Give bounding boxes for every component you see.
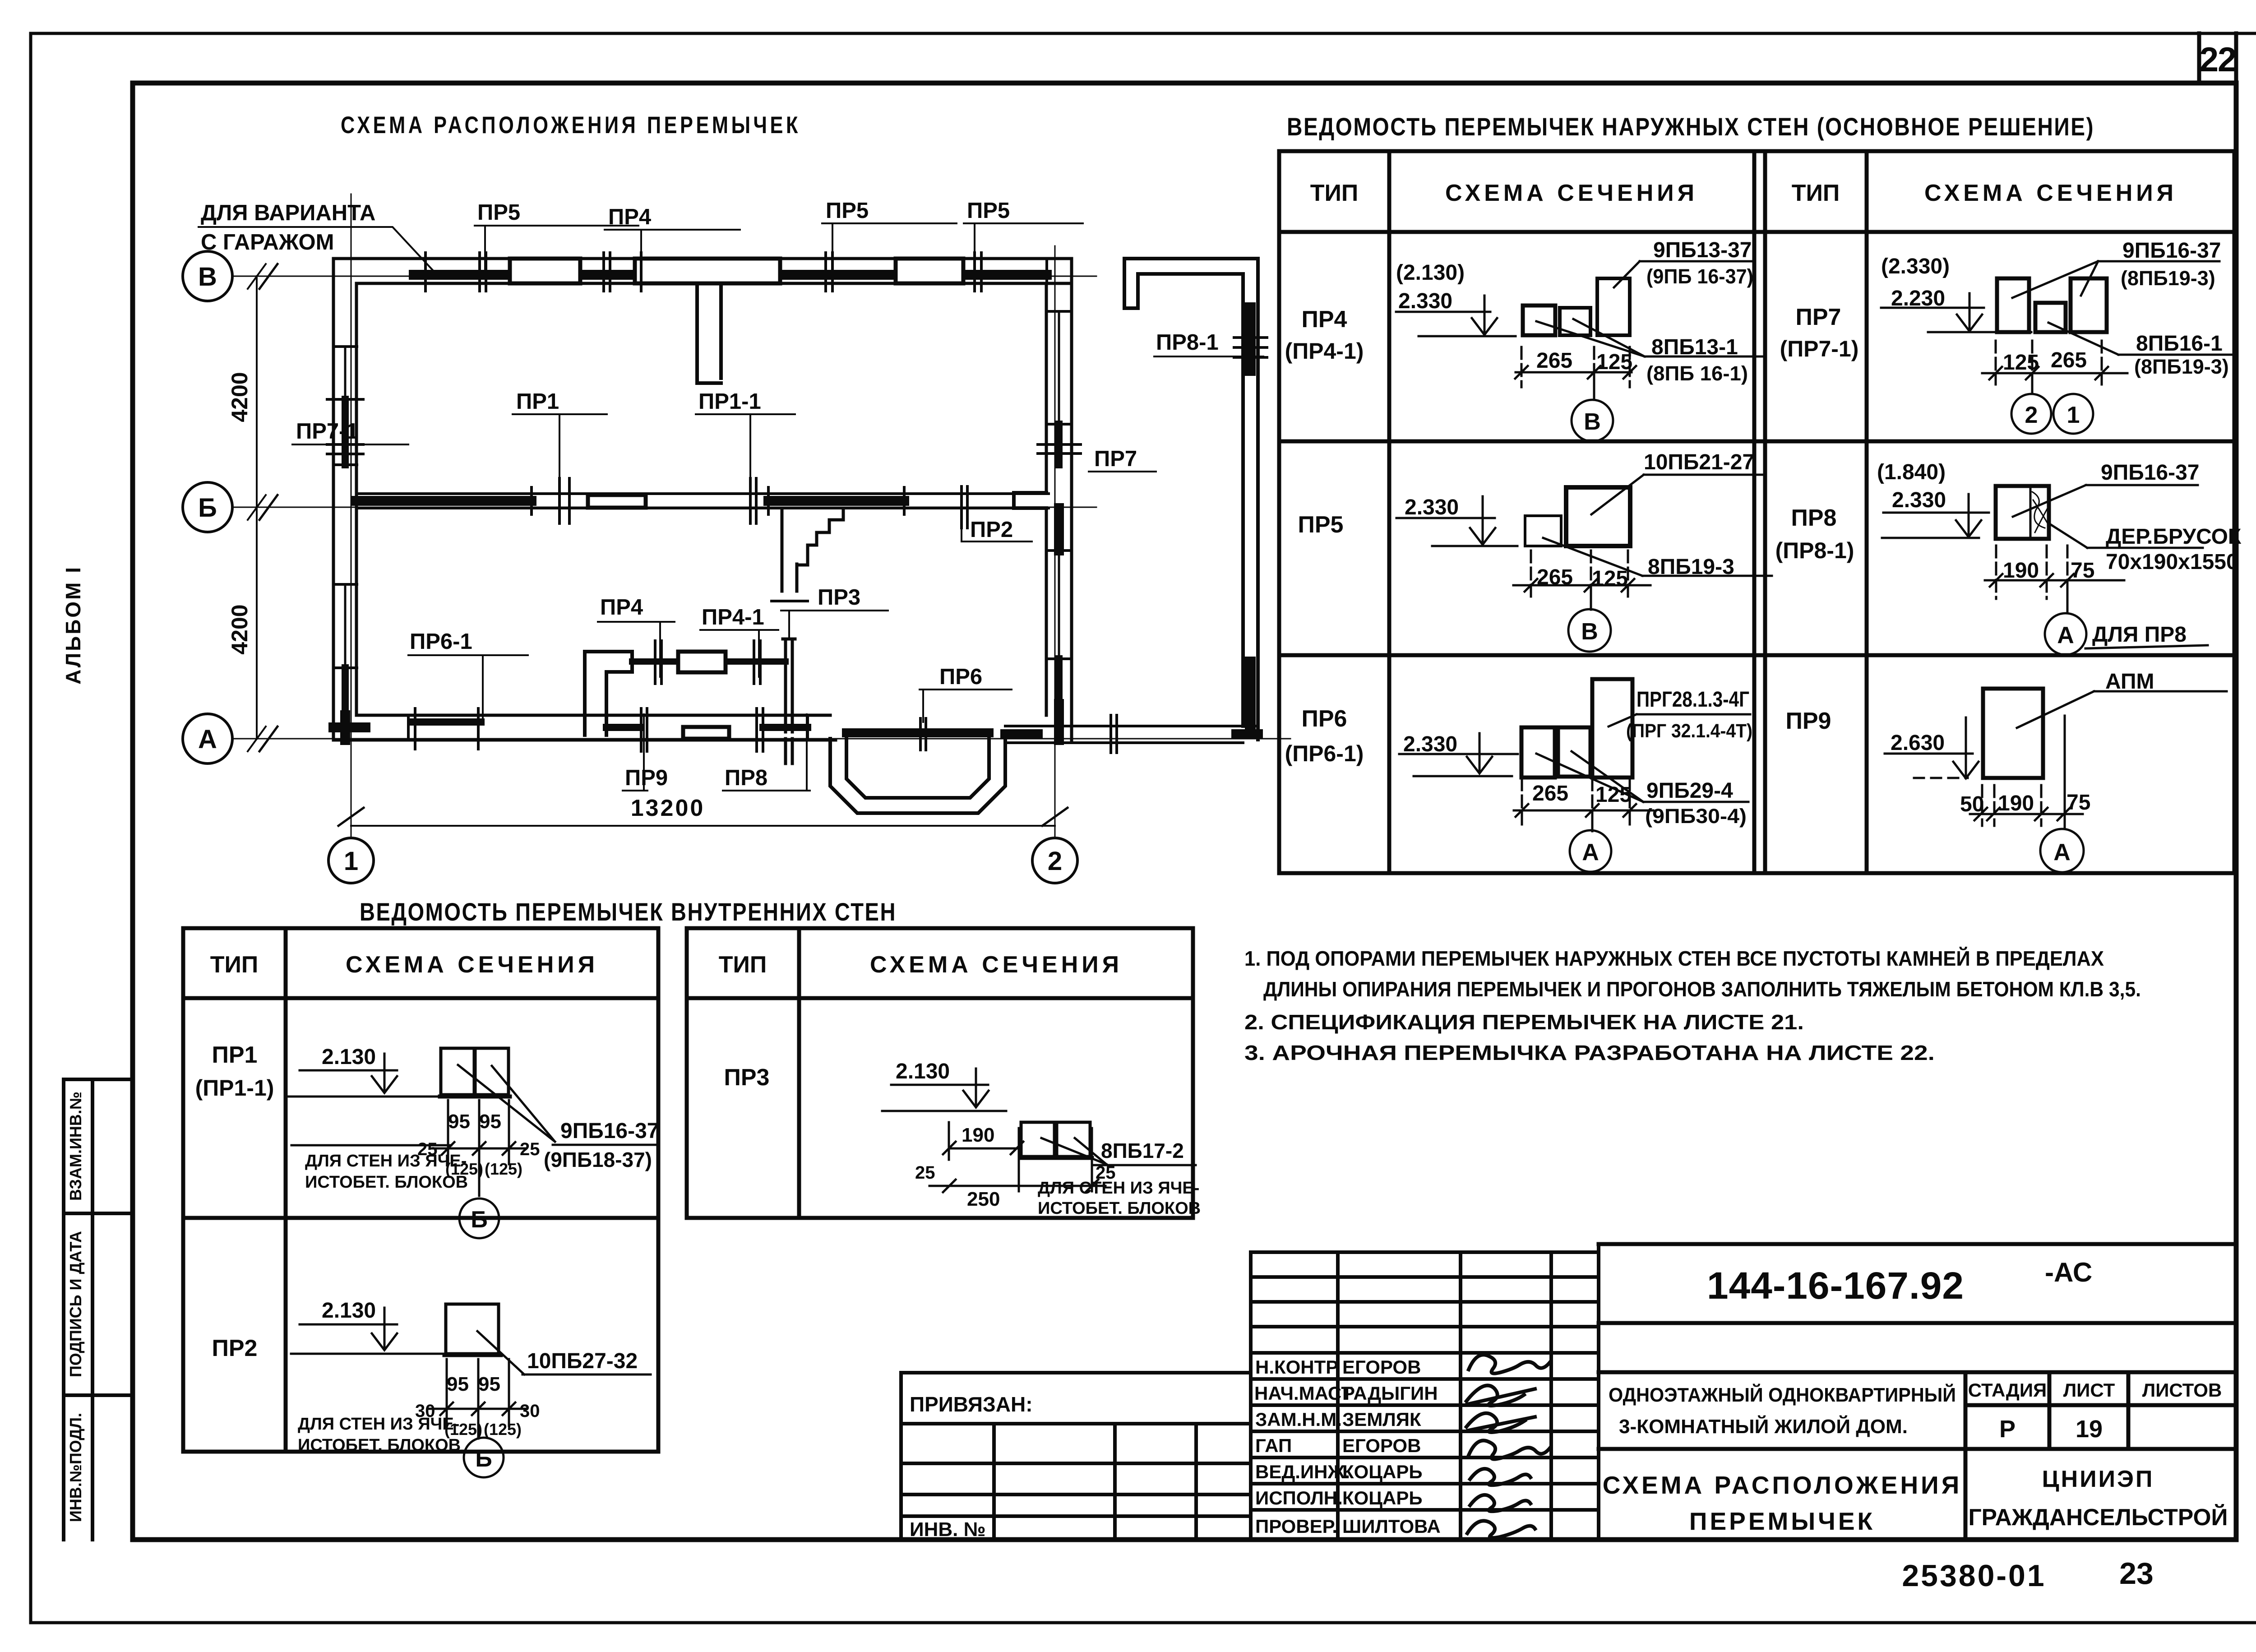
bay window: [830, 739, 1005, 813]
svg-text:(1.840): (1.840): [1877, 460, 1946, 484]
svg-text:ПР4-1: ПР4-1: [702, 605, 764, 629]
svg-text:2.330: 2.330: [1405, 495, 1459, 519]
svg-text:2.330: 2.330: [1398, 289, 1452, 313]
svg-text:ЕГОРОВ: ЕГОРОВ: [1342, 1435, 1421, 1456]
svg-text:ПР5: ПР5: [967, 199, 1010, 223]
cell ПР9 section scheme: [1885, 670, 2227, 872]
svg-text:А: А: [1582, 839, 1599, 865]
svg-text:2: 2: [1048, 847, 1062, 876]
svg-text:(8ПБ19-3): (8ПБ19-3): [2121, 267, 2215, 290]
svg-text:(8ПБ 16-1): (8ПБ 16-1): [1646, 362, 1748, 385]
svg-text:22: 22: [2200, 41, 2236, 79]
svg-text:190: 190: [1998, 791, 2034, 815]
svg-text:ОДНОЭТАЖНЫЙ ОДНОКВАРТИРНЫЙ: ОДНОЭТАЖНЫЙ ОДНОКВАРТИРНЫЙ: [1609, 1383, 1956, 1406]
svg-text:ПР7: ПР7: [1094, 447, 1137, 471]
svg-text:(ПР4-1): (ПР4-1): [1285, 338, 1364, 364]
svg-text:2.130: 2.130: [322, 1299, 376, 1323]
bottom tables title: [360, 898, 897, 926]
svg-text:В: В: [1581, 619, 1598, 645]
svg-text:2.130: 2.130: [896, 1060, 950, 1083]
svg-text:СХЕМА СЕЧЕНИЯ: СХЕМА СЕЧЕНИЯ: [1924, 180, 2177, 206]
svg-text:ПР7: ПР7: [1796, 304, 1841, 330]
svg-text:ДЕР.БРУСОК: ДЕР.БРУСОК: [2106, 525, 2242, 549]
svg-text:(ПР7-1): (ПР7-1): [1780, 336, 1859, 361]
svg-text:СТАДИЯ: СТАДИЯ: [1968, 1379, 2047, 1401]
svg-text:ПР8: ПР8: [725, 766, 767, 790]
svg-text:-АС: -АС: [2045, 1257, 2092, 1287]
svg-text:ПР3: ПР3: [724, 1064, 770, 1091]
svg-text:125: 125: [1596, 350, 1632, 374]
svg-text:1: 1: [2067, 402, 2080, 428]
right wall: [1046, 259, 1072, 740]
svg-text:(ПР8-1): (ПР8-1): [1775, 538, 1854, 563]
svg-text:ДЛИНЫ ОПИРАНИЯ ПЕРЕМЫЧЕК И: ДЛИНЫ ОПИРАНИЯ ПЕРЕМЫЧЕК И ПРОГОНОВ ЗАПО…: [1263, 977, 2141, 1001]
svg-text:3-КОМНАТНЫЙ ЖИЛОЙ ДОМ.: 3-КОМНАТНЫЙ ЖИЛОЙ ДОМ.: [1619, 1415, 1908, 1438]
svg-text:ГАП: ГАП: [1255, 1435, 1292, 1456]
svg-text:КОЦАРЬ: КОЦАРЬ: [1342, 1461, 1423, 1482]
dimension 13200: [351, 825, 1055, 827]
right table: Ведомость перемычек наружных стен: [1287, 112, 2094, 141]
cell ПР7 section scheme: [1881, 239, 2233, 434]
svg-text:ИНВ.№ПОДЛ.: ИНВ.№ПОДЛ.: [66, 1413, 85, 1522]
svg-text:25: 25: [915, 1163, 935, 1183]
sheet number box 22: [2199, 33, 2236, 83]
svg-text:8ПБ17-2: 8ПБ17-2: [1101, 1139, 1184, 1162]
svg-text:(9ПБ30-4): (9ПБ30-4): [1645, 805, 1747, 828]
svg-text:СХЕМА СЕЧЕНИЯ: СХЕМА СЕЧЕНИЯ: [870, 952, 1123, 978]
table internal walls - right (ПР3): [687, 928, 1193, 1218]
svg-text:АЛЬБОМ I: АЛЬБОМ I: [61, 565, 85, 685]
right wall jog to Б wall: [1014, 493, 1046, 508]
svg-text:КОЦАРЬ: КОЦАРЬ: [1342, 1487, 1423, 1509]
cell ПР4 section scheme: [1396, 238, 1762, 441]
dimension 4200 vertical: [248, 264, 266, 751]
cell ПР6 section scheme: [1399, 679, 1752, 872]
svg-text:13200: 13200: [631, 795, 705, 821]
svg-text:75: 75: [2071, 559, 2094, 583]
svg-text:2. СПЕЦИФИКАЦИЯ ПЕРЕМЫЧЕК НА: 2. СПЕЦИФИКАЦИЯ ПЕРЕМЫЧЕК НА ЛИСТЕ 21.: [1244, 1010, 1804, 1034]
svg-text:ИСТОБЕТ. БЛОКОВ: ИСТОБЕТ. БЛОКОВ: [305, 1173, 468, 1192]
svg-text:ИСТОБЕТ. БЛОКОВ: ИСТОБЕТ. БЛОКОВ: [1038, 1199, 1201, 1218]
title block: signature table: [1251, 1244, 1599, 1540]
bottom wall right of bay to garage piece: [1005, 726, 1258, 743]
svg-text:10ПБ21-27: 10ПБ21-27: [1644, 450, 1754, 474]
svg-text:НАЧ.МАСТ: НАЧ.МАСТ: [1254, 1383, 1353, 1404]
svg-text:ПР4: ПР4: [1302, 306, 1347, 333]
svg-text:ПР9: ПР9: [1786, 708, 1831, 734]
signatures squiggles: [1466, 1355, 1550, 1538]
axis slashes: [259, 264, 1068, 826]
svg-text:ПР9: ПР9: [625, 766, 668, 790]
svg-text:(2.130): (2.130): [1396, 261, 1465, 285]
svg-text:9ПБ29-4: 9ПБ29-4: [1646, 779, 1733, 803]
svg-text:ВЗАМ.ИНВ.№: ВЗАМ.ИНВ.№: [66, 1092, 85, 1201]
svg-text:8ПБ16-1: 8ПБ16-1: [2136, 332, 2223, 356]
svg-text:(125): (125): [485, 1160, 522, 1178]
svg-text:ПРОВЕР.: ПРОВЕР.: [1255, 1516, 1337, 1537]
svg-text:ЕГОРОВ: ЕГОРОВ: [1342, 1356, 1421, 1378]
svg-text:1. ПОД ОПОРАМИ ПЕРЕМЫЧЕК НАРУ: 1. ПОД ОПОРАМИ ПЕРЕМЫЧЕК НАРУЖНЫХ СТЕН В…: [1244, 947, 2104, 970]
svg-text:ПРИВЯЗАН:: ПРИВЯЗАН:: [910, 1393, 1033, 1416]
svg-text:25380-01: 25380-01: [1902, 1559, 2046, 1593]
svg-text:144-16-167.92: 144-16-167.92: [1707, 1264, 1964, 1307]
svg-text:РАДЫГИН: РАДЫГИН: [1342, 1383, 1438, 1404]
svg-text:250: 250: [967, 1188, 1000, 1210]
svg-text:265: 265: [1532, 782, 1568, 805]
svg-text:ИСТОБЕТ. БЛОКОВ: ИСТОБЕТ. БЛОКОВ: [298, 1436, 461, 1455]
top wall: [333, 259, 1072, 283]
svg-text:ТИП: ТИП: [719, 952, 767, 978]
svg-text:(ПРГ 32.1.4-4Т): (ПРГ 32.1.4-4Т): [1626, 720, 1752, 742]
svg-text:ПР1-1: ПР1-1: [698, 389, 761, 414]
svg-text:9ПБ16-37: 9ПБ16-37: [2122, 239, 2221, 263]
svg-text:СХЕМА РАСПОЛОЖЕНИЯ ПЕРЕМЫЧЕК: СХЕМА РАСПОЛОЖЕНИЯ ПЕРЕМЫЧЕК: [341, 112, 801, 139]
svg-text:(125): (125): [484, 1420, 522, 1439]
svg-text:95: 95: [478, 1373, 500, 1395]
svg-text:30: 30: [520, 1401, 540, 1421]
svg-text:Р: Р: [1999, 1416, 2016, 1443]
svg-text:ПР2: ПР2: [970, 518, 1013, 542]
svg-text:(9ПБ18-37): (9ПБ18-37): [544, 1148, 652, 1171]
cell ПР2: [291, 1299, 651, 1477]
svg-text:265: 265: [2051, 348, 2087, 372]
svg-text:СХЕМА СЕЧЕНИЯ: СХЕМА СЕЧЕНИЯ: [1445, 180, 1698, 206]
svg-text:ДЛЯ СТЕН ИЗ ЯЧЕ-: ДЛЯ СТЕН ИЗ ЯЧЕ-: [298, 1415, 459, 1434]
svg-text:ЛИСТ: ЛИСТ: [2063, 1379, 2115, 1401]
svg-text:ПР5: ПР5: [477, 200, 520, 225]
T-stub partition from top wall: [697, 283, 721, 383]
svg-text:ДЛЯ СТЕН ИЗ ЯЧЕ-: ДЛЯ СТЕН ИЗ ЯЧЕ-: [1038, 1179, 1199, 1198]
notes: [1244, 947, 2141, 1064]
svg-text:95: 95: [447, 1373, 469, 1395]
svg-text:С ГАРАЖОМ: С ГАРАЖОМ: [201, 230, 334, 255]
table internal walls - left: [183, 928, 658, 1452]
svg-text:ПР1: ПР1: [212, 1042, 258, 1068]
svg-text:ПР3: ПР3: [818, 585, 860, 610]
svg-text:3. АРОЧНАЯ ПЕРЕМЫЧКА РАЗРАБО: 3. АРОЧНАЯ ПЕРЕМЫЧКА РАЗРАБОТАНА НА ЛИСТ…: [1244, 1041, 1935, 1064]
svg-text:ПР5: ПР5: [1298, 512, 1344, 538]
svg-text:ПР6: ПР6: [1302, 706, 1347, 732]
svg-text:ПР5: ПР5: [826, 199, 869, 223]
svg-text:4200: 4200: [227, 604, 252, 654]
title block: right part: [1599, 1244, 2236, 1540]
svg-text:В: В: [198, 262, 217, 292]
svg-text:ВЕД.ИНЖ.: ВЕД.ИНЖ.: [1255, 1461, 1350, 1482]
svg-text:ПР8-1: ПР8-1: [1156, 330, 1219, 355]
horizontal partition ПР4 row: [585, 652, 632, 735]
svg-text:ЦНИИЭП: ЦНИИЭП: [2042, 1466, 2154, 1492]
svg-text:ПЕРЕМЫЧЕК: ПЕРЕМЫЧЕК: [1689, 1507, 1875, 1535]
svg-text:ДЛЯ ВАРИАНТА: ДЛЯ ВАРИАНТА: [201, 201, 375, 225]
svg-text:1: 1: [344, 847, 358, 876]
svg-text:ЗАМ.Н.М.: ЗАМ.Н.М.: [1255, 1409, 1342, 1430]
svg-text:75: 75: [2066, 791, 2090, 814]
svg-text:ПР7-1: ПР7-1: [296, 419, 359, 444]
svg-text:(8ПБ19-3): (8ПБ19-3): [2134, 355, 2229, 378]
svg-text:Б: Б: [471, 1207, 487, 1233]
plan title: [341, 112, 801, 139]
svg-text:ИНВ. №: ИНВ. №: [910, 1518, 986, 1541]
svg-text:2.330: 2.330: [1892, 488, 1946, 512]
svg-text:А: А: [2057, 622, 2074, 648]
svg-text:(2.330): (2.330): [1881, 255, 1950, 278]
svg-text:ВЕДОМОСТЬ ПЕРЕМЫЧЕК ВНУТРЕННИ: ВЕДОМОСТЬ ПЕРЕМЫЧЕК ВНУТРЕННИХ СТЕН: [360, 898, 897, 926]
svg-text:ТИП: ТИП: [1792, 180, 1840, 206]
bottom wall: [333, 715, 836, 740]
svg-text:2.330: 2.330: [1403, 732, 1457, 756]
svg-text:ГРАЖДАНСЕЛЬСТРОЙ: ГРАЖДАНСЕЛЬСТРОЙ: [1969, 1504, 2228, 1531]
svg-text:ПР6: ПР6: [939, 665, 982, 689]
svg-text:СХЕМА РАСПОЛОЖЕНИЯ: СХЕМА РАСПОЛОЖЕНИЯ: [1603, 1471, 1962, 1499]
svg-text:4200: 4200: [227, 372, 252, 422]
svg-text:10ПБ27-32: 10ПБ27-32: [527, 1349, 638, 1373]
axis circles: [183, 251, 1077, 883]
svg-text:190: 190: [2003, 559, 2039, 583]
svg-text:ПР8: ПР8: [1791, 505, 1837, 531]
svg-text:2.630: 2.630: [1891, 731, 1945, 755]
svg-text:265: 265: [1536, 349, 1572, 373]
svg-text:ПОДПИСЬ И ДАТА: ПОДПИСЬ И ДАТА: [66, 1231, 85, 1377]
svg-text:70х190х1550: 70х190х1550: [2106, 550, 2238, 574]
left margin album text: [61, 565, 85, 685]
svg-text:9ПБ16-37: 9ПБ16-37: [560, 1119, 659, 1143]
svg-text:А: А: [198, 725, 217, 754]
svg-text:23: 23: [2119, 1556, 2154, 1591]
svg-text:(ПР1-1): (ПР1-1): [195, 1075, 274, 1101]
svg-text:95: 95: [479, 1111, 501, 1133]
svg-text:ПР1: ПР1: [516, 389, 559, 414]
svg-text:Б: Б: [475, 1446, 492, 1472]
svg-text:2.130: 2.130: [322, 1045, 376, 1069]
svg-text:ШИЛТОВА: ШИЛТОВА: [1342, 1516, 1441, 1537]
svg-text:190: 190: [962, 1124, 994, 1146]
svg-text:ИСПОЛН.: ИСПОЛН.: [1255, 1487, 1343, 1509]
svg-text:ЛИСТОВ: ЛИСТОВ: [2142, 1379, 2222, 1401]
vertical partition below Б wall: [782, 508, 843, 764]
svg-text:(ПР6-1): (ПР6-1): [1285, 741, 1364, 766]
svg-text:АПМ: АПМ: [2105, 670, 2154, 694]
svg-text:ПРГ28.1.3-4Г: ПРГ28.1.3-4Г: [1637, 688, 1749, 712]
svg-text:(9ПБ 16-37): (9ПБ 16-37): [1646, 265, 1753, 288]
svg-text:ТИП: ТИП: [1310, 180, 1359, 206]
svg-text:ПР6-1: ПР6-1: [410, 629, 472, 654]
svg-text:Н.КОНТР: Н.КОНТР: [1255, 1356, 1338, 1378]
svg-text:СХЕМА СЕЧЕНИЯ: СХЕМА СЕЧЕНИЯ: [346, 952, 598, 978]
Б axis interior wall: [356, 494, 1049, 508]
left margin stamp boxes: [64, 1079, 133, 1540]
cell ПР8 section scheme: [1877, 460, 2242, 655]
svg-text:2: 2: [2025, 402, 2038, 428]
svg-text:А: А: [2053, 839, 2071, 865]
svg-text:50: 50: [1960, 792, 1984, 816]
left wall: [333, 259, 356, 740]
svg-text:9ПБ13-37: 9ПБ13-37: [1653, 238, 1752, 262]
svg-text:9ПБ16-37: 9ПБ16-37: [2101, 461, 2199, 485]
axis lines: [232, 194, 1290, 837]
leader lines: [199, 223, 1263, 791]
cell ПР1: [289, 1045, 659, 1238]
svg-text:Б: Б: [198, 493, 217, 523]
svg-text:В: В: [1584, 409, 1601, 435]
svg-text:ДЛЯ ПР8: ДЛЯ ПР8: [2092, 623, 2187, 647]
plan labels: [201, 199, 1219, 790]
svg-text:ВЕДОМОСТЬ ПЕРЕМЫЧЕК НАРУЖНЫХ С: ВЕДОМОСТЬ ПЕРЕМЫЧЕК НАРУЖНЫХ СТЕН (ОСНОВ…: [1287, 112, 2094, 141]
svg-text:ПР4: ПР4: [600, 595, 643, 620]
svg-text:ПР2: ПР2: [212, 1335, 258, 1361]
svg-text:95: 95: [448, 1111, 470, 1133]
svg-text:ТИП: ТИП: [210, 952, 259, 978]
cell ПР5 section scheme: [1396, 450, 1772, 652]
svg-text:19: 19: [2076, 1416, 2103, 1443]
svg-text:ЗЕМЛЯК: ЗЕМЛЯК: [1342, 1409, 1421, 1430]
title block: privyazan box: [901, 1373, 1251, 1540]
garage variant piece right: [1124, 259, 1258, 740]
